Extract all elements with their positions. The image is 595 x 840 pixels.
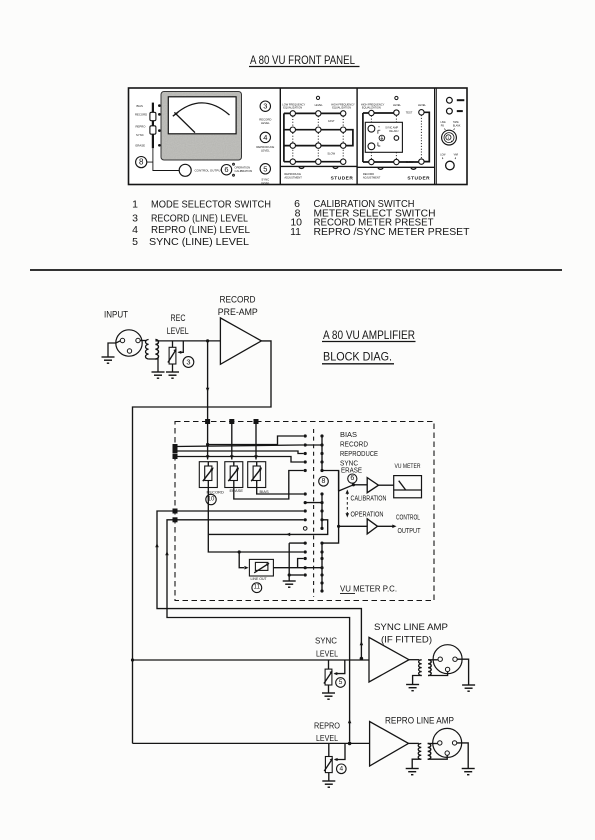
ground sync XLR <box>462 685 475 691</box>
svg-text:LEVEL: LEVEL <box>418 103 427 107</box>
svg-text:TEST: TEST <box>406 110 413 114</box>
svg-text:5: 5 <box>339 679 343 686</box>
wire primary to ground <box>412 759 421 768</box>
svg-text:PRE-AMP: PRE-AMP <box>218 307 258 318</box>
svg-text:MODE SELECTOR SWITCH: MODE SELECTOR SWITCH <box>151 199 271 211</box>
repro output XLR J3 <box>433 728 462 757</box>
repro output transformer T3 <box>418 744 431 760</box>
wire w4 to deck1 contact 4 <box>173 454 304 462</box>
label CONTROL OUTPUT <box>396 515 421 535</box>
svg-text:RECORD (LINE) LEVEL: RECORD (LINE) LEVEL <box>151 213 248 225</box>
svg-text:(IF FITTED): (IF FITTED) <box>381 635 432 645</box>
wires secondary to XLR <box>428 744 448 760</box>
svg-text:3: 3 <box>132 213 138 225</box>
svg-text:LOW: LOW <box>440 154 446 156</box>
label VU METER <box>395 464 422 470</box>
svg-text:LEVEL: LEVEL <box>315 103 324 107</box>
wire sync pot to ground <box>328 685 330 693</box>
svg-text:1: 1 <box>447 136 449 140</box>
svg-text:OUTPUT: OUTPUT <box>398 528 422 535</box>
svg-text:REPRO LINE AMP: REPRO LINE AMP <box>385 716 454 726</box>
svg-text:ADJUSTMENT: ADJUSTMENT <box>363 175 381 179</box>
node sync feed on trunk <box>131 658 134 661</box>
svg-text:ERASE: ERASE <box>230 488 244 493</box>
svg-text:PB: PB <box>441 126 445 128</box>
ground repro transformer <box>406 769 419 775</box>
svg-text:RECORD: RECORD <box>363 172 374 176</box>
svg-text:5: 5 <box>263 164 267 173</box>
svg-text:REPRODUCE: REPRODUCE <box>284 172 301 176</box>
label INPUT <box>104 310 128 321</box>
wire pre-amp output loop to left trunk <box>133 341 272 744</box>
svg-text:RECORD: RECORD <box>220 295 256 306</box>
svg-text:SLOW: SLOW <box>327 152 335 156</box>
svg-text:8: 8 <box>139 158 144 167</box>
svg-text:6: 6 <box>350 475 354 482</box>
line out box with pot <box>249 559 273 581</box>
svg-text:SLOW: SLOW <box>406 160 414 164</box>
wire w1 to deck1 contact 1 <box>206 436 304 446</box>
input transformer T1 <box>146 340 159 360</box>
title: A80 VU AMPLIFIER BLOCK DIAG <box>322 330 416 364</box>
svg-text:REPRO: REPRO <box>136 124 147 128</box>
title: A80 VU FRONT PANEL <box>249 55 360 67</box>
deck3 right bus <box>321 543 323 591</box>
wire deck1 output to calibration switch <box>322 471 339 492</box>
svg-text:CONTROL OUTPUT: CONTROL OUTPUT <box>195 169 223 173</box>
wire sync level feed <box>133 659 370 661</box>
ground below rec level pot <box>166 372 179 378</box>
ground below transformer <box>152 372 165 378</box>
label RECORD PRE-AMP <box>218 295 258 319</box>
wire secondary to pre-amp input (main record wire) <box>155 340 220 342</box>
wire XLR pin2 to transformer <box>140 340 146 342</box>
svg-text:RECORD: RECORD <box>135 113 147 117</box>
ground at input <box>102 357 115 363</box>
circled 8 <box>319 477 329 487</box>
svg-text:CALIBRATION: CALIBRATION <box>351 495 387 502</box>
svg-text:FAST: FAST <box>328 119 335 123</box>
svg-text:A 80 VU AMPLIFIER: A 80 VU AMPLIFIER <box>323 330 415 342</box>
deck2 bridge and bus <box>305 494 322 528</box>
circled 4 reproduce level <box>256 132 274 153</box>
preset pot (record) <box>199 462 224 495</box>
wire repro level feed <box>133 742 370 744</box>
svg-text:LEVEL: LEVEL <box>261 181 270 185</box>
svg-text:RE-ADJ: RE-ADJ <box>389 130 399 133</box>
svg-text:REPRODUCE: REPRODUCE <box>340 451 378 458</box>
label REPRO LINE AMP <box>385 716 454 726</box>
svg-text:4: 4 <box>132 224 138 236</box>
svg-text:1: 1 <box>132 199 138 211</box>
svg-text:LINE: LINE <box>441 122 447 124</box>
ground sync transformer <box>406 685 419 691</box>
dashed travel arrows calibration/operation <box>346 490 350 518</box>
mode selector lower labels and button <box>440 153 458 169</box>
meter amplifier A2 <box>367 478 378 493</box>
circled 6 calibration switch <box>348 474 357 483</box>
svg-text:LEVEL: LEVEL <box>167 326 189 336</box>
svg-text:REC: REC <box>171 313 186 323</box>
control output button <box>179 164 222 176</box>
svg-text:11: 11 <box>290 226 301 238</box>
input XLR connector J1 <box>116 330 142 356</box>
svg-text:SYNC LINE AMP: SYNC LINE AMP <box>374 622 448 632</box>
wire record pot to deck3 contact <box>208 488 303 553</box>
ground below sync pot <box>322 693 335 699</box>
circled 6 operation/calibration <box>221 163 252 176</box>
sync output transformer T2 <box>419 660 432 676</box>
circled 3 record level <box>259 101 271 125</box>
svg-text:REPRO (LINE) LEVEL: REPRO (LINE) LEVEL <box>151 224 250 236</box>
rotary switch dashed shaft <box>313 429 315 597</box>
svg-text:ADJUSTMENT: ADJUSTMENT <box>284 176 302 180</box>
calibration switch wiper <box>339 483 355 491</box>
svg-text:INPUT: INPUT <box>104 310 128 321</box>
svg-text:RECORD: RECORD <box>207 490 224 495</box>
wire deck3 to calibration riser <box>322 471 339 544</box>
node: junction on pre-amp input <box>206 339 209 342</box>
svg-text:OPERATION: OPERATION <box>235 165 251 169</box>
VU meter window with scale arc and needle <box>168 97 236 134</box>
switch deck3 contacts <box>304 542 324 593</box>
node line-out tap <box>238 550 241 553</box>
feedthrough squares on top border <box>205 419 258 424</box>
svg-text:VU METER P.C.: VU METER P.C. <box>340 584 397 594</box>
wire deck output to control amp <box>337 525 367 528</box>
circled 8 meter select switch <box>136 148 179 170</box>
repro level pot R4 <box>324 743 345 772</box>
wire amp to sync transformer <box>409 659 419 661</box>
svg-text:TAPE: TAPE <box>453 121 459 124</box>
ground below repro pot <box>322 781 335 787</box>
circled 1 mode selector knob <box>442 130 457 145</box>
wire repro pot to ground <box>328 773 330 781</box>
svg-text:VAR: VAR <box>454 153 459 156</box>
front panel outline <box>129 88 468 185</box>
svg-text:REPRO: REPRO <box>314 722 340 731</box>
svg-text:SYNC AMP: SYNC AMP <box>385 126 398 129</box>
panel divider 1 <box>279 88 281 185</box>
label CALIBRATION <box>351 495 387 502</box>
legend list <box>132 198 470 248</box>
svg-text:ERASE: ERASE <box>136 143 146 147</box>
label VU METER P.C. <box>340 584 397 594</box>
labels BIAS RECORD REPRODUCE SYNC ERASE <box>340 432 378 475</box>
reproduce adjustment sub-panel <box>280 96 357 181</box>
svg-text:LEVEL: LEVEL <box>316 650 338 659</box>
svg-text:BIAS: BIAS <box>340 432 357 439</box>
circled 5 sync level <box>260 164 270 186</box>
svg-text:SYNC: SYNC <box>340 461 358 468</box>
svg-text:LEVEL: LEVEL <box>316 734 338 743</box>
svg-text:SYNC: SYNC <box>315 637 337 646</box>
wire junction down into PC board <box>206 341 210 419</box>
switch deck1 right bus <box>305 434 323 472</box>
wire XLR to ground <box>457 659 468 685</box>
wire to meter amp <box>353 484 367 486</box>
wire amp to repro transformer <box>409 742 419 744</box>
wire sync return loop <box>155 509 363 658</box>
wire erase pot to deck1 contact 5 <box>234 471 304 500</box>
wire repro return loop <box>165 517 351 741</box>
panel divider 2 <box>356 88 358 185</box>
wire tap to line out box <box>239 552 248 569</box>
svg-text:11: 11 <box>254 585 261 591</box>
wire bias pot to deck2 contact 1 <box>257 488 304 495</box>
preset pot (erase) <box>225 462 244 493</box>
preset pot (bias) <box>248 462 269 494</box>
ground repro XLR <box>462 769 475 775</box>
node sync junction <box>360 657 364 661</box>
wire XLR to ground <box>457 743 468 769</box>
control output amplifier A3 <box>367 519 377 534</box>
svg-text:LEVEL: LEVEL <box>261 121 270 125</box>
label (IF FITTED) <box>381 635 432 645</box>
wire transformer bottom to ground <box>149 359 158 372</box>
svg-text:BLOCK DIAG.: BLOCK DIAG. <box>323 352 392 364</box>
svg-text:STUDER: STUDER <box>407 176 430 182</box>
switch deck1 left contacts <box>304 434 307 472</box>
svg-text:EQUALIZATION: EQUALIZATION <box>283 106 302 110</box>
svg-text:5: 5 <box>132 236 138 248</box>
wire drops to preset pots <box>206 422 258 460</box>
svg-text:EQUALIZATION: EQUALIZATION <box>362 106 381 110</box>
label SYNC LEVEL <box>315 637 338 659</box>
wire amp to VU meter <box>379 484 394 486</box>
svg-text:EQUALIZATION: EQUALIZATION <box>332 106 351 110</box>
meter select slider with labels <box>135 103 161 149</box>
wire line out output to deck3 <box>273 567 322 569</box>
label REPRO LEVEL <box>314 722 340 744</box>
svg-text:SYNC (LINE) LEVEL: SYNC (LINE) LEVEL <box>149 236 249 248</box>
svg-text:SYNC: SYNC <box>136 133 144 137</box>
record pre-amp A1 <box>220 318 261 364</box>
svg-text:OPERATION: OPERATION <box>351 511 384 518</box>
svg-text:LEVEL: LEVEL <box>261 149 270 153</box>
label OPERATION <box>351 511 384 518</box>
panel divider 3 <box>435 88 437 185</box>
svg-text:A 80 VU FRONT PANEL: A 80 VU FRONT PANEL <box>250 55 356 67</box>
svg-text:CALIBRATION: CALIBRATION <box>235 169 253 173</box>
svg-text:8: 8 <box>322 478 326 485</box>
svg-text:CONTROL: CONTROL <box>396 515 420 522</box>
sync level pot R5 <box>324 660 345 685</box>
label SYNC LINE AMP <box>374 622 448 632</box>
svg-text:LEVEL: LEVEL <box>393 103 402 107</box>
circled 11 <box>252 583 262 593</box>
svg-text:STUDER: STUDER <box>331 176 354 182</box>
switch deck2 contacts <box>303 492 323 530</box>
circled 5 <box>336 678 346 688</box>
rec level pot R3 <box>168 341 183 364</box>
svg-text:RECORD: RECORD <box>340 442 368 449</box>
node repro junction <box>348 742 352 746</box>
wires secondary to XLR <box>428 660 448 676</box>
svg-text:BLANK: BLANK <box>453 125 461 128</box>
label REC LEVEL <box>167 313 189 336</box>
circled 10 <box>206 494 216 504</box>
sync line amplifier A4 <box>369 637 409 682</box>
wire w2 from board edge to deck1 contact 2 <box>173 444 304 449</box>
sync output XLR J2 <box>433 645 462 674</box>
svg-text:4: 4 <box>339 765 343 772</box>
mode selector sub-panel <box>441 97 465 130</box>
circled 3 <box>183 357 194 368</box>
ground riser for deck3 <box>288 543 306 581</box>
svg-text:LINE OUT: LINE OUT <box>251 577 268 581</box>
wire pot to ground <box>172 364 174 372</box>
repro line amplifier A5 <box>370 722 409 767</box>
svg-text:ERASE: ERASE <box>341 468 362 475</box>
svg-text:3: 3 <box>186 358 190 367</box>
VU meter box <box>394 476 422 498</box>
svg-text:3: 3 <box>263 102 267 111</box>
dashed box: VU meter PC board <box>175 422 434 601</box>
stub to deck3 contact 558.5 <box>298 559 304 568</box>
svg-text:BIAS: BIAS <box>137 104 144 108</box>
deck2 output jog <box>208 520 327 536</box>
circled 4 <box>337 764 347 774</box>
wire w3 to deck1 contact 3 <box>173 449 304 454</box>
svg-text:4: 4 <box>263 133 267 142</box>
svg-text:VU METER: VU METER <box>395 464 422 470</box>
wire control amp output <box>378 525 397 529</box>
svg-text:BIAS: BIAS <box>260 489 269 494</box>
svg-text:6: 6 <box>224 165 228 174</box>
wire primary to ground <box>413 676 422 685</box>
wire XLR pin1 to ground <box>108 341 120 357</box>
ground on PC board <box>283 581 296 587</box>
VU meter bezel (grey) <box>161 92 242 161</box>
horizontal separator rule <box>30 269 562 271</box>
svg-text:REPRO /SYNC METER PRESET: REPRO /SYNC METER PRESET <box>314 226 471 238</box>
record adjustment sub-panel <box>357 96 435 181</box>
